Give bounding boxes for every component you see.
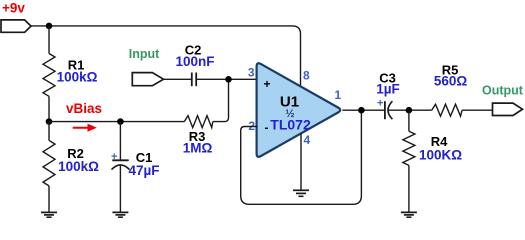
svg-text:100kΩ: 100kΩ	[57, 70, 98, 85]
capacitor C3	[385, 101, 393, 119]
svg-text:-: -	[265, 121, 269, 135]
ground below pin 4	[293, 190, 309, 196]
wire C1 top lead	[119, 122, 121, 161]
wire R3 up to pin 3 node	[213, 79, 229, 121]
wire vBias rail to R3	[49, 121, 184, 123]
svg-text:+: +	[377, 98, 383, 110]
svg-text:TL072: TL072	[270, 117, 311, 133]
wire R5 to Output connector	[462, 109, 492, 111]
resistor R4	[403, 131, 415, 165]
wire vBias node down to R2	[48, 122, 50, 141]
op-amp U1	[257, 63, 341, 157]
wire op-amp output to C3	[342, 109, 385, 111]
vBias current arrow	[73, 124, 97, 132]
wire top rail from +9v to pin 8	[30, 26, 301, 87]
wire C2 to op-amp pin 3	[196, 78, 257, 80]
svg-text:1: 1	[335, 88, 342, 102]
wire feedback pin 2 to output	[241, 110, 362, 204]
svg-text:1µF: 1µF	[376, 82, 400, 97]
node junction output	[358, 107, 365, 114]
svg-text:Output: Output	[482, 84, 524, 98]
svg-text:4: 4	[304, 133, 311, 147]
svg-text:1MΩ: 1MΩ	[183, 141, 213, 156]
svg-text:47µF: 47µF	[128, 163, 159, 178]
resistor R1	[43, 54, 55, 97]
ground below R4	[401, 212, 417, 217]
svg-text:3: 3	[248, 66, 255, 80]
resistor R2	[43, 140, 55, 186]
node junction C1 top	[117, 118, 124, 125]
svg-text:+9v: +9v	[2, 1, 25, 16]
wire R1 to vBias node	[48, 96, 50, 121]
capacitor C1	[112, 160, 130, 169]
node junction pin 3	[225, 76, 232, 83]
wire R4 top lead	[408, 110, 410, 131]
node junction top rail at R1	[46, 23, 53, 30]
svg-text:560Ω: 560Ω	[434, 74, 468, 89]
svg-text:100KΩ: 100KΩ	[419, 148, 462, 163]
connector Input	[132, 73, 163, 86]
ground below R2	[41, 212, 57, 217]
svg-text:+: +	[264, 77, 271, 91]
wire C3 to R5	[388, 109, 431, 111]
resistor R3	[184, 116, 213, 128]
wire C1 to ground	[119, 165, 121, 212]
wire R2 to ground	[48, 186, 50, 213]
svg-text:8: 8	[303, 69, 310, 83]
capacitor C2	[192, 73, 196, 87]
svg-text:100nF: 100nF	[175, 54, 214, 69]
connector Output	[493, 103, 523, 115]
wire pin 4 to ground	[300, 134, 302, 191]
connector +9v	[1, 20, 31, 32]
svg-text:vBias: vBias	[66, 101, 102, 116]
svg-text:Input: Input	[129, 47, 160, 61]
wire from top rail down to R1	[48, 26, 50, 54]
node junction R4 top	[406, 107, 413, 114]
svg-text:100kΩ: 100kΩ	[58, 159, 99, 174]
node vBias junction left	[46, 118, 53, 125]
wire Input to C2	[162, 78, 192, 80]
resistor R5	[432, 104, 462, 116]
ground below C1	[112, 212, 128, 217]
svg-text:+: +	[111, 151, 117, 163]
wire R4 to ground	[408, 165, 410, 212]
